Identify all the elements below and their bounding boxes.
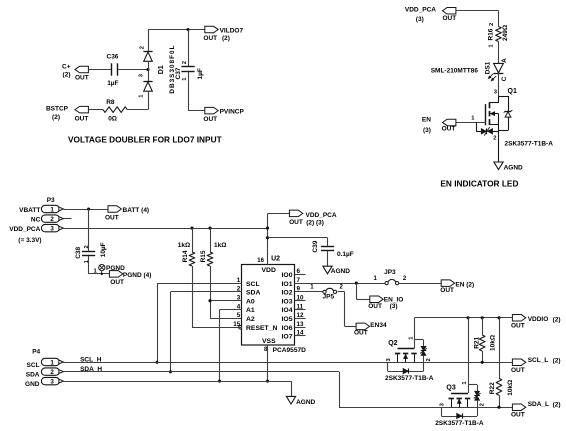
svg-text:3: 3 (50, 226, 54, 233)
svg-text:U2: U2 (271, 256, 280, 263)
svg-text:PGND (4): PGND (4) (123, 272, 152, 279)
svg-text:A1: A1 (246, 307, 255, 314)
svg-text:2SK3577-T1B-A: 2SK3577-T1B-A (505, 140, 554, 147)
svg-text:IO5: IO5 (282, 316, 293, 323)
svg-text:PVINCP: PVINCP (220, 108, 245, 115)
svg-text:2: 2 (480, 403, 486, 406)
svg-text:C38: C38 (75, 246, 82, 258)
svg-text:VDDIO: VDDIO (528, 316, 549, 323)
svg-text:SCL: SCL (27, 362, 40, 369)
svg-text:16: 16 (257, 258, 264, 264)
svg-text:DS1: DS1 (485, 61, 492, 74)
svg-text:SDA: SDA (246, 290, 260, 297)
svg-text:OUT: OUT (110, 279, 124, 286)
svg-text:AGND: AGND (296, 399, 315, 406)
svg-text:VDD_PCA: VDD_PCA (306, 212, 337, 219)
svg-text:A: A (501, 58, 508, 63)
svg-text:SML-210MTT86: SML-210MTT86 (431, 67, 479, 74)
svg-text:GND: GND (25, 381, 40, 388)
svg-text:A2: A2 (246, 316, 255, 323)
svg-text:2SK3577-T1B-A: 2SK3577-T1B-A (435, 420, 484, 427)
svg-text:VDD_PCA: VDD_PCA (9, 226, 40, 233)
svg-text:AGND: AGND (331, 268, 350, 275)
svg-text:EN INDICATOR LED: EN INDICATOR LED (440, 179, 518, 189)
svg-text:13: 13 (297, 321, 305, 328)
svg-text:(3): (3) (390, 303, 398, 310)
svg-text:C+: C+ (62, 63, 71, 70)
svg-text:SDA: SDA (26, 372, 40, 379)
svg-text:0Ω: 0Ω (108, 116, 117, 123)
svg-text:C36: C36 (107, 54, 119, 61)
svg-text:(2): (2) (52, 114, 60, 121)
svg-text:(= 3.3V): (= 3.3V) (18, 237, 41, 244)
svg-text:(2): (2) (222, 35, 230, 42)
svg-text:PCA9557D: PCA9557D (273, 347, 307, 354)
svg-text:SCL: SCL (246, 281, 260, 288)
svg-text:IO3: IO3 (282, 298, 293, 305)
svg-text:R15: R15 (200, 250, 207, 262)
svg-text:JP3: JP3 (384, 269, 396, 276)
svg-text:2: 2 (426, 358, 432, 361)
svg-text:7: 7 (297, 277, 301, 284)
svg-text:BSTCP: BSTCP (46, 106, 69, 113)
svg-text:2: 2 (50, 369, 54, 376)
svg-text:1: 1 (50, 359, 54, 366)
svg-text:NC: NC (31, 216, 41, 223)
svg-text:1µF: 1µF (107, 80, 118, 87)
svg-text:AGND: AGND (504, 165, 523, 172)
svg-text:15: 15 (233, 321, 241, 328)
svg-text:R14: R14 (182, 250, 189, 262)
svg-text:OUT: OUT (511, 411, 525, 418)
svg-text:IO0: IO0 (282, 272, 293, 279)
svg-text:3: 3 (50, 379, 54, 386)
svg-text:EN (2): EN (2) (455, 281, 474, 288)
svg-text:Q1: Q1 (508, 88, 517, 95)
svg-text:OUT: OUT (203, 116, 217, 123)
svg-text:OUT: OUT (442, 125, 456, 132)
svg-text:VSS: VSS (262, 338, 276, 345)
svg-text:BATT (4): BATT (4) (123, 207, 150, 214)
svg-text:2: 2 (489, 23, 495, 26)
svg-text:C39: C39 (312, 240, 319, 252)
svg-text:C: C (501, 76, 508, 81)
svg-text:OUT: OUT (203, 35, 217, 42)
svg-text:OUT: OUT (75, 75, 89, 82)
svg-text:OUT: OUT (105, 214, 119, 221)
svg-text:(3): (3) (416, 16, 424, 23)
svg-text:SDA_L: SDA_L (528, 401, 549, 408)
svg-text:1: 1 (237, 277, 241, 284)
svg-text:R22: R22 (489, 382, 496, 394)
svg-text:VOLTAGE DOUBLER FOR LDO7 INPUT: VOLTAGE DOUBLER FOR LDO7 INPUT (68, 134, 222, 144)
svg-text:IO2: IO2 (282, 290, 293, 297)
svg-text:(3): (3) (423, 127, 431, 134)
svg-text:2: 2 (493, 135, 496, 141)
svg-text:Q2: Q2 (388, 340, 397, 347)
svg-text:A0: A0 (246, 298, 255, 305)
svg-text:5: 5 (237, 312, 241, 319)
svg-text:1: 1 (50, 206, 54, 213)
svg-text:1µF: 1µF (197, 68, 204, 79)
svg-text:VILDO7: VILDO7 (220, 27, 244, 34)
svg-text:IO7: IO7 (282, 334, 293, 341)
svg-text:OUT: OUT (511, 367, 525, 374)
svg-text:VBATT: VBATT (19, 207, 40, 214)
svg-text:OUT: OUT (75, 116, 89, 123)
svg-text:OUT: OUT (289, 219, 303, 226)
svg-text:IO4: IO4 (282, 307, 293, 314)
svg-text:2: 2 (84, 245, 90, 248)
svg-text:249Ω: 249Ω (502, 25, 509, 41)
svg-text:EN34: EN34 (370, 322, 387, 329)
svg-text:10µF: 10µF (100, 242, 107, 257)
svg-text:OUT: OUT (511, 323, 525, 330)
svg-text:R21: R21 (474, 336, 481, 348)
svg-text:JP5: JP5 (323, 294, 335, 301)
svg-text:(2): (2) (63, 72, 71, 79)
svg-text:2SK3577-T1B-A: 2SK3577-T1B-A (385, 375, 434, 382)
svg-text:R16: R16 (487, 28, 494, 40)
svg-text:P3: P3 (47, 197, 55, 204)
svg-text:OUT: OUT (368, 303, 382, 310)
svg-text:(2): (2) (553, 358, 561, 365)
svg-text:1kΩ: 1kΩ (214, 242, 226, 249)
svg-text:Q3: Q3 (446, 384, 455, 391)
svg-text:OUT: OUT (354, 329, 368, 336)
svg-text:VDD: VDD (262, 267, 276, 274)
svg-text:C37: C37 (175, 67, 182, 79)
svg-text:2: 2 (50, 216, 54, 223)
svg-text:(2): (2) (553, 316, 561, 323)
svg-text:(2) (3): (2) (3) (306, 220, 324, 227)
svg-text:IO1: IO1 (282, 281, 293, 288)
svg-text:VDD_PCA: VDD_PCA (405, 6, 436, 13)
svg-text:D1: D1 (158, 65, 165, 74)
svg-text:2: 2 (140, 46, 146, 49)
svg-text:0.1µF: 0.1µF (337, 251, 354, 258)
svg-text:OUT: OUT (440, 287, 454, 294)
svg-text:1kΩ: 1kΩ (178, 242, 190, 249)
svg-text:10kΩ: 10kΩ (489, 335, 496, 351)
svg-text:(2): (2) (553, 402, 561, 409)
svg-text:IO6: IO6 (282, 325, 293, 332)
svg-text:2: 2 (182, 61, 188, 64)
svg-text:OUT: OUT (443, 15, 457, 22)
svg-text:SCL_L: SCL_L (528, 357, 549, 364)
svg-text:EN: EN (422, 117, 431, 124)
svg-text:R8: R8 (106, 99, 115, 106)
svg-text:RESET_N: RESET_N (246, 325, 277, 332)
svg-text:P4: P4 (32, 349, 40, 356)
svg-text:10kΩ: 10kΩ (507, 380, 514, 396)
